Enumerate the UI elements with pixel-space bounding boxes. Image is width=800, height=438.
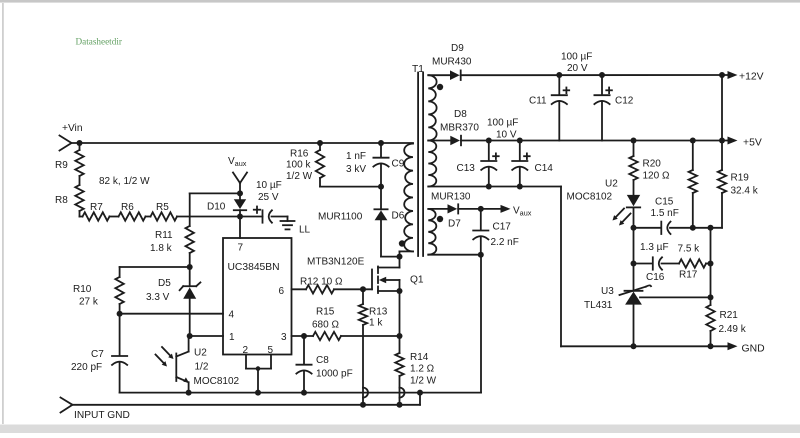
wire aux return [428,254,481,256]
primary phase dot [399,240,405,246]
node C11 top [556,72,562,78]
svg-text:+5V: +5V [743,138,762,149]
wire secondary gnd rail [561,345,728,347]
wire aux return riser [480,255,482,393]
svg-text:D10: D10 [207,202,226,213]
node C9 top [378,140,384,146]
capacitor C7 [71,314,127,393]
resistor R6 [119,202,146,221]
node Q1 source-body [397,288,403,294]
diode D10 [207,193,246,216]
svg-text:82 k, 1/2 W: 82 k, 1/2 W [99,176,150,187]
svg-text:D7: D7 [448,219,461,230]
opto LED U2 [567,179,641,228]
capacitor C15 [651,197,679,235]
transformer secondary winding lower [428,141,436,187]
wire R5 to D10 node [177,216,240,218]
op-amp U1 UC3845BN box [223,238,292,356]
svg-text:10 V: 10 V [496,130,517,141]
wire R6-R5 [146,216,151,218]
svg-text:1/2: 1/2 [195,362,209,373]
svg-text:100 µF: 100 µF [487,118,518,129]
svg-text:R16: R16 [290,149,309,160]
node D10 anode [237,190,243,196]
svg-text:U2: U2 [194,348,207,359]
node C12 top [599,72,605,78]
node pins2-5 ground [255,390,261,396]
+Vin terminal [60,123,83,151]
svg-text:C17: C17 [493,222,512,233]
svg-text:2.2 nF: 2.2 nF [491,237,519,248]
node C8 ground [301,390,307,396]
node R21 top [708,294,714,300]
resistor R13 [359,289,388,405]
transformer aux winding [428,209,436,255]
svg-text:25 V: 25 V [258,192,279,203]
node C16 left [631,261,637,267]
svg-text:C16: C16 [646,272,665,283]
svg-text:R6: R6 [121,202,134,213]
wire D7 to Vaux out [458,208,501,210]
wire pin4 [120,313,223,315]
resistor R21 [706,305,746,346]
node comp node mid [708,261,714,267]
node R21 bottom gnd [708,343,714,349]
svg-text:D8: D8 [454,109,467,120]
wire TL431 cathode to R21 [640,296,711,298]
svg-text:1/2 W: 1/2 W [286,171,313,182]
svg-text:D6: D6 [392,211,405,222]
svg-text:R10: R10 [73,284,92,295]
svg-text:LL: LL [299,225,311,236]
wire pin6 out [292,288,307,290]
svg-text:Q1: Q1 [410,275,424,286]
wire R11 node to R10 [120,266,190,268]
wire C16 row [634,263,711,265]
svg-text:100 k: 100 k [286,160,311,171]
svg-text:C8: C8 [316,355,329,366]
label 100uF 20V [561,52,592,75]
svg-text:+12V: +12V [739,72,764,83]
node mid resistor bottom [690,225,696,231]
node C8 tap [301,333,307,339]
wire R16 bottom to D6 node [320,186,381,188]
svg-text:1/2 W: 1/2 W [410,376,437,387]
svg-text:R15: R15 [316,307,335,318]
svg-text:1.2 Ω: 1.2 Ω [410,364,435,375]
svg-text:3: 3 [281,332,287,343]
wire pin3 out [292,335,314,337]
capacitor C12 [594,75,633,141]
node R9 top [77,140,83,146]
wire secondary tap to D8 [428,140,450,142]
INPUT GND terminal [61,398,130,422]
capacitor C8 [296,336,352,393]
transformer core [418,73,423,257]
diode D6 MUR1100 [318,187,405,257]
svg-text:20 V: 20 V [567,63,588,74]
svg-text:3.3 V: 3.3 V [146,292,170,303]
svg-text:R20: R20 [643,159,662,170]
diode D7 MUR130 [431,192,471,230]
wire secondary top to D9 [428,74,450,76]
svg-text:Datasheetdir: Datasheetdir [76,37,122,47]
svg-text:100 µF: 100 µF [561,52,592,63]
ground LL [281,221,311,236]
svg-text:MBR370: MBR370 [440,123,479,134]
svg-text:27 k: 27 k [79,297,99,308]
svg-text:680 Ω: 680 Ω [312,320,339,331]
svg-text:1: 1 [229,332,235,343]
Datasheetdir watermark [76,37,122,47]
resistor R19 [718,141,759,228]
capacitor C16 [640,242,669,283]
svg-text:INPUT GND: INPUT GND [74,410,130,421]
svg-text:MUR430: MUR430 [432,57,472,68]
node mid resistor top [690,138,696,144]
svg-text:MUR130: MUR130 [431,192,471,203]
wire pin7 riser [239,217,241,239]
wire +5V rail [461,140,728,142]
node R10 C7 pin4 [117,311,123,317]
svg-text:U2: U2 [605,179,618,190]
svg-text:1.5 nF: 1.5 nF [651,208,679,219]
svg-text:120 Ω: 120 Ω [643,171,670,182]
resistor R11 [150,226,194,267]
resistor R9 [55,143,84,176]
wire Q1 drain up [399,251,401,267]
resistor R20 [629,141,670,195]
node +12V riser [719,72,725,78]
shunt regulator U3 TL431 [584,285,651,346]
wire C15 row [634,227,723,229]
resistor R7 [83,202,110,221]
svg-text:MUR1100: MUR1100 [318,212,363,223]
node D6 return [397,254,403,260]
svg-text:4: 4 [229,310,235,321]
pins 2 5 bracket [246,355,271,393]
svg-text:1.3 µF: 1.3 µF [640,242,669,253]
wire D10 anode to left vertical [190,192,240,194]
wire Q1 source down [399,280,401,353]
svg-text:GND: GND [742,344,765,355]
capacitor 10uF 25V [254,180,282,223]
wire top rail +Vin to transformer [72,142,414,144]
node gnd tie [417,390,423,396]
node comp node top [708,225,714,231]
resistor R16 [286,143,324,187]
node D10 cathode [237,214,243,220]
node C9 D6 [378,184,384,190]
svg-text:MTB3N120E: MTB3N120E [307,257,365,268]
secondary phase dot [437,84,443,90]
node R20 top [631,138,637,144]
wire cap to ground LL [272,217,288,222]
svg-text:C15: C15 [655,197,674,208]
wire input gnd rail [73,393,421,405]
node C13 top [486,138,492,144]
svg-text:+Vin: +Vin [62,123,83,134]
label 82k half W [99,176,150,187]
capacitor C14 [512,141,553,187]
node R19 top [719,138,725,144]
svg-text:R9: R9 [55,160,68,171]
label 100uF 10V [487,118,518,141]
label MTB3N120E [307,257,365,268]
svg-text:D5: D5 [158,278,171,289]
wire comp vertical [710,228,712,305]
resistor R12 [300,277,343,294]
svg-text:C12: C12 [615,96,634,107]
node R13 tap [360,286,366,292]
wire D6 return [381,256,400,258]
svg-text:32.4 k: 32.4 k [731,186,759,197]
svg-text:C11: C11 [529,96,547,107]
svg-text:UC3845BN: UC3845BN [228,262,280,273]
wire D10 cathode to C-boot [240,216,263,218]
diode D8 MBR370 [440,109,479,145]
resistor R14 [395,352,436,405]
resistor R8 [55,176,84,217]
GND output arrow [728,342,765,354]
svg-text:6: 6 [279,286,285,297]
node sense at Q1 source [397,333,403,339]
svg-text:MOC8102: MOC8102 [194,376,240,387]
svg-text:R5: R5 [156,202,169,213]
svg-text:R13: R13 [369,307,388,318]
node R14 to input gnd [397,402,403,408]
R13 hop over analog ground [363,388,368,398]
capacitor C13 [457,141,499,187]
node D5 to pin1 wire [187,333,193,339]
svg-text:R14: R14 [410,352,429,363]
node C13 bottom [486,184,492,190]
svg-text:R7: R7 [90,202,103,213]
+5V output arrow [728,137,762,149]
left grey border line [2,3,4,424]
capacitor C11 [529,75,569,141]
aux phase dot [437,216,443,222]
transformer T1 label [412,64,424,75]
wire R15 to source node [341,335,400,337]
svg-text:1 k: 1 k [369,318,383,329]
svg-text:3 kV: 3 kV [346,164,366,175]
svg-text:220 pF: 220 pF [71,362,102,373]
node U2 emitter ground [186,390,192,396]
+12V output arrow [728,71,764,83]
transformer primary winding [404,144,413,252]
node TL431 anode gnd [631,343,637,349]
wire +12V rail [461,74,728,76]
node C14 top [517,138,523,144]
svg-text:R12 10 Ω: R12 10 Ω [300,277,343,288]
wire R8 to R7 chain [80,216,83,218]
resistor R10 [73,267,124,314]
svg-text:1000 pF: 1000 pF [316,369,353,380]
wire +12V to +5V riser [721,75,723,141]
wire analog ground [120,392,481,394]
node C17 top [478,206,484,212]
wire pin1 [190,335,223,337]
node R11 bottom [187,264,193,270]
resistor R5 [151,202,178,221]
node LED cathode [631,225,637,231]
svg-text:1 nF: 1 nF [346,151,366,162]
wire secondary return [428,187,561,347]
bottom grey band [0,425,800,434]
svg-text:1.8 k: 1.8 k [150,243,173,254]
zener D5 [146,267,200,336]
svg-text:R11: R11 [155,230,173,241]
svg-text:R17: R17 [679,270,698,281]
svg-text:R8: R8 [55,195,68,206]
svg-text:U3: U3 [601,286,614,297]
svg-text:2.49 k: 2.49 k [719,324,747,335]
svg-text:C14: C14 [535,163,554,174]
wire aux to D7 [428,208,447,210]
wire vertical R5/R11 riser [189,193,191,226]
capacitor C9 [346,143,405,187]
wire R7-R6 [110,216,119,218]
svg-text:C7: C7 [91,349,104,360]
node C17 bottom [478,252,484,258]
svg-text:C13: C13 [457,163,476,174]
opto transistor U2 [156,336,240,393]
svg-text:7.5 k: 7.5 k [678,244,701,255]
svg-text:R21: R21 [720,310,739,321]
svg-text:R19: R19 [731,173,750,184]
transformer secondary winding upper [428,75,436,140]
resistor R17 [678,244,707,281]
svg-text:7: 7 [238,243,244,254]
R14 hop over analog ground [400,388,405,398]
top grey border band [0,0,800,3]
wire LED cathode down [633,228,635,291]
node C14 bottom [517,184,523,190]
transistor Q1 [372,267,424,294]
wire primary bottom [400,250,414,252]
svg-text:TL431: TL431 [584,300,613,311]
wire R12 to gate [334,288,372,290]
svg-text:MOC8102: MOC8102 [567,192,613,203]
Vaux input symbol [228,156,247,193]
capacitor C17 [473,209,519,255]
svg-text:10 µF: 10 µF [256,180,282,191]
svg-text:D9: D9 [451,43,464,54]
node R16 top [317,140,323,146]
resistor R15 [312,307,341,341]
Vaux output arrow [501,205,532,218]
diode D9 MUR430 [432,43,472,80]
svg-text:C9: C9 [392,159,405,170]
mid resistor [689,141,697,228]
node R13 to input gnd [360,402,366,408]
